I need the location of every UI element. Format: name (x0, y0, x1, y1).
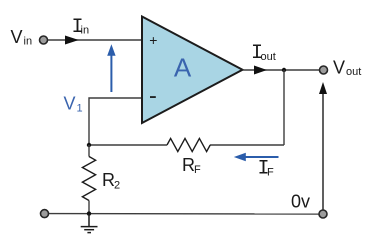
wire V1 to R2 (88, 145, 90, 157)
current arrow IF (blue, left) (245, 156, 279, 158)
terminal Vin (40, 36, 48, 44)
svg-text:F: F (267, 167, 274, 179)
wire feedback vertical drop (283, 70, 285, 145)
wire feedback left segment (89, 144, 167, 146)
svg-text:in: in (24, 36, 33, 48)
svg-text:0v: 0v (291, 192, 310, 212)
ground (81, 214, 98, 233)
voltage arrow Vout (up) (322, 93, 324, 210)
voltage arrow V1 (blue, up) (110, 55, 112, 92)
terminal bottom-left (41, 210, 49, 218)
current arrow Iin (65, 36, 79, 45)
current arrow Iout (254, 66, 267, 75)
node ground junction (87, 211, 91, 215)
svg-text:V: V (64, 94, 76, 114)
resistor RF (167, 138, 210, 151)
wire ground rail (49, 213, 319, 215)
svg-text:+: + (149, 32, 157, 48)
wire output (243, 69, 320, 71)
wire R2 to ground rail (88, 201, 90, 214)
svg-text:F: F (194, 164, 201, 176)
svg-text:out: out (346, 66, 361, 78)
node output junction (282, 68, 286, 72)
svg-text:V: V (11, 27, 23, 47)
wire inverting input from node V1 (89, 98, 142, 145)
wire feedback right segment (210, 144, 284, 146)
node V1 junction (87, 143, 91, 147)
wire input Vin to op-amp + (48, 39, 142, 41)
svg-text:in: in (81, 25, 90, 37)
resistor R2 (82, 157, 95, 201)
op-amp A (142, 17, 243, 124)
svg-text:V: V (333, 58, 345, 78)
terminal Vout (320, 66, 328, 74)
svg-text:A: A (174, 53, 192, 83)
svg-text:2: 2 (114, 180, 120, 192)
terminal bottom-right (319, 210, 327, 218)
label - (inverting input) (150, 96, 156, 98)
svg-text:1: 1 (77, 103, 83, 115)
svg-text:out: out (261, 51, 276, 63)
